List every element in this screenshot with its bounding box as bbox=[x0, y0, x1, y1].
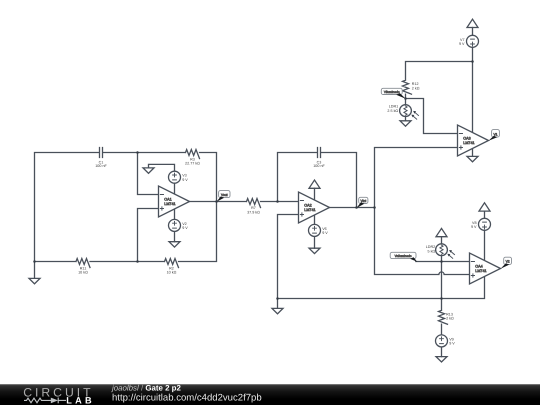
svg-text:Vniluminado: Vniluminado bbox=[395, 254, 412, 258]
svg-text:9 V: 9 V bbox=[459, 42, 465, 47]
svg-text:5 kΩ: 5 kΩ bbox=[428, 249, 436, 254]
svg-text:37.9 kΩ: 37.9 kΩ bbox=[247, 210, 260, 215]
svg-text:R2: R2 bbox=[169, 266, 174, 271]
svg-text:R11: R11 bbox=[80, 266, 87, 271]
svg-text:OA1: OA1 bbox=[164, 197, 171, 202]
svg-text:http://circuitlab.com/c4dd2vuc: http://circuitlab.com/c4dd2vuc2f7pb bbox=[112, 393, 262, 404]
svg-text:Vint: Vint bbox=[360, 199, 366, 203]
svg-text:9 V: 9 V bbox=[182, 226, 188, 231]
svg-text:100 nF: 100 nF bbox=[313, 164, 325, 169]
svg-text:LM741: LM741 bbox=[475, 268, 486, 273]
svg-text:Viluminado: Viluminado bbox=[384, 90, 400, 94]
svg-text:LM741: LM741 bbox=[304, 207, 315, 212]
svg-text:9 V: 9 V bbox=[182, 177, 188, 182]
svg-text:9 V: 9 V bbox=[322, 231, 328, 236]
svg-text:OA3: OA3 bbox=[463, 136, 470, 141]
svg-text:Vout: Vout bbox=[221, 193, 228, 197]
svg-text:V2: V2 bbox=[506, 260, 510, 264]
svg-text:2 kΩ: 2 kΩ bbox=[446, 316, 454, 321]
svg-text:R3: R3 bbox=[190, 157, 195, 162]
svg-text:joaolbsl / Gate 2 p2: joaolbsl / Gate 2 p2 bbox=[111, 383, 181, 392]
svg-text:2.5 kΩ: 2.5 kΩ bbox=[387, 108, 398, 113]
svg-text:R7: R7 bbox=[251, 206, 256, 211]
svg-text:LM741: LM741 bbox=[463, 140, 474, 145]
svg-text:LM741: LM741 bbox=[164, 201, 175, 206]
svg-text:100 nF: 100 nF bbox=[95, 164, 107, 169]
svg-text:10 kΩ: 10 kΩ bbox=[78, 270, 88, 275]
svg-text:LAB: LAB bbox=[66, 396, 94, 405]
svg-text:9 V: 9 V bbox=[449, 341, 455, 346]
svg-text:10 kΩ: 10 kΩ bbox=[167, 270, 177, 275]
svg-text:22.77 kΩ: 22.77 kΩ bbox=[185, 161, 200, 166]
svg-text:V1: V1 bbox=[493, 133, 497, 137]
svg-text:OA4: OA4 bbox=[475, 264, 482, 269]
svg-text:9 V: 9 V bbox=[471, 225, 477, 230]
svg-text:OA2: OA2 bbox=[304, 203, 311, 208]
svg-text:2 kΩ: 2 kΩ bbox=[412, 86, 420, 91]
